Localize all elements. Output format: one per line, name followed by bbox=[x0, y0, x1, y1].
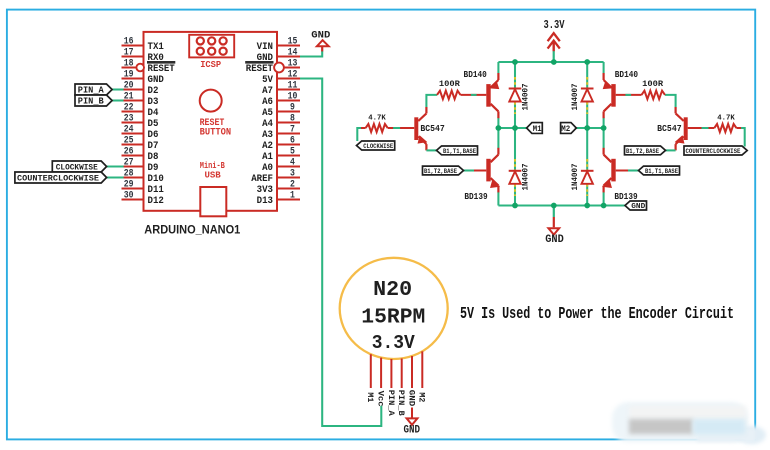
svg-text:11: 11 bbox=[288, 81, 298, 92]
pin 6 A2 (right) bbox=[262, 136, 300, 152]
svg-text:ICSP: ICSP bbox=[200, 59, 221, 70]
svg-text:RESET: RESET bbox=[246, 64, 273, 75]
pin 14 GND (right) bbox=[257, 48, 300, 64]
svg-text:3.3V: 3.3V bbox=[544, 18, 566, 32]
svg-text:20: 20 bbox=[124, 81, 134, 92]
svg-text:D7: D7 bbox=[148, 141, 159, 152]
pin 13 RESET (right) bbox=[245, 59, 300, 75]
wire B1,T1,BASE flag to BD139 base (right) bbox=[616, 169, 639, 171]
pin 8 A4 (right) bbox=[262, 114, 300, 130]
wire B1,T2,BASE flag to BD139 base (left) bbox=[464, 169, 487, 171]
svg-text:12: 12 bbox=[288, 70, 298, 81]
pin 5 A1 (right) bbox=[262, 147, 300, 163]
svg-text:3: 3 bbox=[290, 169, 295, 180]
diode D2 1N4007 (left bottom) bbox=[509, 171, 522, 184]
wire COUNTERCLOCKWISE to pin 28 bbox=[106, 176, 124, 178]
pin 12 5V (right) bbox=[262, 70, 300, 86]
svg-text:BC547: BC547 bbox=[420, 124, 445, 134]
resistor 100R (left) bbox=[437, 80, 461, 99]
wire CLOCKWISE riser (left) bbox=[357, 128, 365, 141]
svg-text:CLOCKWISE: CLOCKWISE bbox=[363, 143, 393, 151]
pin 15 VIN (right) bbox=[257, 37, 300, 53]
net flag CLOCKWISE (bridge) bbox=[357, 141, 395, 151]
svg-text:A2: A2 bbox=[262, 141, 273, 152]
svg-text:USB: USB bbox=[204, 170, 221, 181]
svg-text:B1,T2,BASE: B1,T2,BASE bbox=[626, 148, 659, 156]
svg-text:GND: GND bbox=[631, 203, 646, 211]
net flag B1,T2,BASE (left lower) bbox=[423, 166, 464, 176]
svg-text:27: 27 bbox=[124, 158, 134, 169]
svg-text:1: 1 bbox=[290, 191, 295, 202]
junction (553.8,62.0) bbox=[551, 59, 557, 65]
svg-text:17: 17 bbox=[124, 48, 134, 59]
junction (515.0,62.0) bbox=[512, 59, 518, 65]
transistor Q1 BD140 (left) bbox=[489, 73, 499, 118]
wire 3.3V top rail bbox=[498, 61, 603, 63]
transistor Q5 BC547 (left) bbox=[416, 107, 426, 150]
svg-text:13: 13 bbox=[288, 59, 298, 70]
svg-text:10: 10 bbox=[288, 92, 298, 103]
svg-text:A3: A3 bbox=[262, 130, 273, 141]
wire right transistor column mid-upper bbox=[603, 118, 605, 129]
net flag M2 bbox=[561, 123, 577, 134]
pin 26 D8 (left) bbox=[122, 147, 159, 163]
svg-text:15: 15 bbox=[288, 37, 298, 48]
pin 17 RX0 (left) bbox=[122, 48, 164, 64]
svg-text:3V3: 3V3 bbox=[257, 185, 273, 196]
wire 4.7K to BC547 base (right) bbox=[688, 127, 715, 129]
arduino ARDUINO_NANO1 body bbox=[144, 32, 278, 211]
ground GND (bridge) bbox=[545, 206, 564, 247]
svg-text:26: 26 bbox=[124, 147, 134, 158]
net flag B1,T1,BASE (left) bbox=[437, 146, 478, 156]
wire mid rail M2 bbox=[576, 127, 603, 129]
svg-text:8: 8 bbox=[290, 114, 295, 125]
pin 18 RESET (left) bbox=[122, 59, 176, 75]
svg-text:7: 7 bbox=[290, 125, 295, 136]
svg-text:15RPM: 15RPM bbox=[361, 306, 425, 330]
svg-text:GND: GND bbox=[148, 75, 164, 86]
diode D1 1N4007 (left top) bbox=[509, 89, 522, 102]
junction (587.2,62.0) bbox=[584, 59, 590, 65]
svg-text:9: 9 bbox=[290, 103, 295, 114]
svg-text:24: 24 bbox=[124, 125, 134, 136]
svg-text:COUNTERCLOCKWISE: COUNTERCLOCKWISE bbox=[17, 174, 99, 184]
svg-text:B1,T2,BASE: B1,T2,BASE bbox=[424, 168, 457, 176]
net flag B1,T1,BASE (right lower) bbox=[639, 166, 680, 176]
net flag GND (bridge right) bbox=[625, 201, 647, 211]
svg-text:Vcc: Vcc bbox=[376, 391, 386, 407]
pin 28 D10 (left) bbox=[122, 169, 164, 185]
svg-text:D2: D2 bbox=[148, 86, 159, 97]
svg-text:B1,T1,BASE: B1,T1,BASE bbox=[645, 168, 678, 176]
svg-text:A0: A0 bbox=[262, 163, 273, 174]
pin 19 GND (left) bbox=[122, 70, 164, 86]
svg-text:A5: A5 bbox=[262, 108, 273, 119]
wire BC547 emitter to flag (right) bbox=[666, 149, 676, 151]
junction (603.6,205.5) bbox=[601, 203, 607, 209]
pin 21 D3 (left) bbox=[122, 92, 159, 108]
wire left transistor column mid-upper bbox=[497, 118, 499, 129]
resistor 4.7K (right) bbox=[714, 115, 736, 132]
svg-text:ARDUINO_NANO1: ARDUINO_NANO1 bbox=[144, 223, 240, 237]
wire PIN_A to pin 20 bbox=[112, 88, 124, 90]
net flag PIN_B bbox=[75, 95, 112, 107]
pin 29 D11 (left) bbox=[122, 180, 164, 196]
svg-text:100R: 100R bbox=[439, 80, 460, 89]
svg-text:N20: N20 bbox=[373, 278, 412, 302]
pin 22 D4 (left) bbox=[122, 103, 159, 119]
resistor 100R (right) bbox=[642, 80, 666, 99]
pin 9 A5 (right) bbox=[262, 103, 300, 119]
net flag COUNTERCLOCKWISE (arduino) bbox=[15, 172, 107, 184]
svg-text:GND: GND bbox=[404, 425, 421, 437]
wire right transistor column top bbox=[603, 62, 605, 73]
pin 7 A3 (right) bbox=[262, 125, 300, 141]
ICSP header bbox=[189, 35, 234, 70]
pin 30 D12 (left) bbox=[122, 191, 164, 207]
svg-text:A6: A6 bbox=[262, 97, 273, 108]
transistor Q4 BD139 (right) bbox=[603, 148, 613, 193]
motor pin M1 bbox=[365, 354, 375, 402]
pin 27 D9 (left) bbox=[122, 158, 159, 174]
svg-text:D12: D12 bbox=[148, 196, 164, 207]
wire BC547 emitter to flag (left) bbox=[426, 149, 437, 151]
wire 100R to BD140 base (left) bbox=[461, 94, 487, 96]
pin 1 D13 (right) bbox=[257, 191, 300, 207]
wire 4.7K to BC547 base (left) bbox=[388, 127, 415, 129]
pin 20 D2 (left) bbox=[122, 81, 159, 97]
pin 23 D5 (left) bbox=[122, 114, 159, 130]
net flag B1,T2,BASE (right) bbox=[625, 146, 666, 156]
pin 2 3V3 (right) bbox=[257, 180, 300, 196]
wire left transistor column mid-lower bbox=[497, 128, 499, 149]
net flag PIN_A bbox=[75, 84, 112, 96]
svg-text:BC547: BC547 bbox=[657, 124, 682, 134]
svg-text:M1: M1 bbox=[365, 392, 375, 402]
svg-text:19: 19 bbox=[124, 70, 134, 81]
svg-text:14: 14 bbox=[288, 48, 298, 59]
resistor 4.7K (left) bbox=[366, 115, 388, 132]
junction (498.4,128.0) bbox=[496, 125, 502, 131]
svg-text:1N4007: 1N4007 bbox=[522, 163, 531, 190]
wire pin 12 (5V) to motor Vcc bbox=[300, 79, 381, 427]
wire right transistor column mid-lower bbox=[603, 128, 605, 149]
svg-text:M1: M1 bbox=[533, 125, 542, 134]
wire right transistor column bottom bbox=[603, 192, 605, 206]
net flag CLOCKWISE (arduino) bbox=[52, 161, 106, 173]
svg-text:VIN: VIN bbox=[257, 42, 273, 53]
junction (553.8,205.5) bbox=[551, 203, 557, 209]
svg-text:D6: D6 bbox=[148, 130, 159, 141]
svg-text:CLOCKWISE: CLOCKWISE bbox=[56, 163, 98, 173]
motor pin M2 bbox=[417, 351, 427, 402]
wire 100R to BD140 base (right) bbox=[616, 94, 642, 96]
svg-text:AREF: AREF bbox=[251, 174, 273, 185]
svg-text:D11: D11 bbox=[148, 185, 164, 196]
power 3.3V bbox=[544, 18, 566, 62]
svg-text:D8: D8 bbox=[148, 152, 159, 163]
svg-text:3.3V: 3.3V bbox=[372, 332, 415, 354]
svg-text:TX1: TX1 bbox=[148, 42, 164, 53]
svg-text:18: 18 bbox=[124, 59, 134, 70]
svg-text:BD140: BD140 bbox=[615, 70, 638, 80]
pin 16 TX1 (left) bbox=[122, 37, 164, 53]
diode D3 1N4007 (right top) bbox=[581, 89, 594, 102]
svg-text:1N4007: 1N4007 bbox=[571, 83, 580, 110]
svg-text:BD140: BD140 bbox=[464, 70, 487, 80]
svg-text:PIN_B: PIN_B bbox=[396, 390, 406, 417]
svg-text:25: 25 bbox=[124, 136, 134, 147]
svg-text:5V: 5V bbox=[262, 75, 274, 86]
transistor Q2 BD140 (right) bbox=[603, 73, 613, 118]
svg-text:21: 21 bbox=[124, 92, 134, 103]
junction (587.2,128.0) bbox=[584, 125, 590, 131]
wire left transistor column bottom bbox=[497, 192, 499, 206]
svg-text:GND: GND bbox=[406, 390, 416, 407]
pin 11 A7 (right) bbox=[262, 81, 300, 97]
svg-text:6: 6 bbox=[290, 136, 295, 147]
reset button bbox=[200, 90, 232, 139]
wire CLOCKWISE to pin 27 bbox=[106, 165, 124, 167]
svg-text:1N4007: 1N4007 bbox=[522, 83, 531, 110]
motor pin PIN_A bbox=[386, 359, 396, 417]
svg-text:4.7K: 4.7K bbox=[368, 115, 386, 123]
wire left diode column bbox=[514, 62, 516, 206]
svg-text:22: 22 bbox=[124, 103, 134, 114]
junction (603.6,128.0) bbox=[601, 125, 607, 131]
svg-text:4.7K: 4.7K bbox=[717, 115, 735, 123]
svg-text:29: 29 bbox=[124, 180, 134, 191]
svg-text:B1,T1,BASE: B1,T1,BASE bbox=[443, 148, 476, 156]
motor pin PIN_B bbox=[396, 358, 406, 416]
svg-text:BUTTON: BUTTON bbox=[200, 127, 232, 138]
pin 25 D7 (left) bbox=[122, 136, 159, 152]
wire left transistor column top bbox=[497, 62, 499, 73]
wire BC547-collector to 100R (left) bbox=[426, 95, 437, 107]
motor pin Vcc bbox=[376, 358, 386, 407]
svg-text:5: 5 bbox=[290, 147, 295, 158]
svg-text:PIN_B: PIN_B bbox=[78, 97, 105, 107]
svg-text:D13: D13 bbox=[257, 196, 273, 207]
Mini-B USB connector bbox=[200, 160, 227, 216]
junction (515.0,205.5) bbox=[512, 203, 518, 209]
svg-text:GND: GND bbox=[311, 30, 330, 41]
svg-text:100R: 100R bbox=[642, 80, 663, 89]
svg-text:PIN_A: PIN_A bbox=[386, 390, 396, 417]
transistor Q3 BD139 (left) bbox=[489, 148, 499, 193]
wire pin 14 to GND bbox=[300, 51, 322, 57]
wire BC547-collector to 100R (right) bbox=[665, 95, 676, 107]
svg-text:GND: GND bbox=[545, 234, 564, 246]
svg-text:2: 2 bbox=[290, 180, 295, 191]
svg-text:BD139: BD139 bbox=[464, 192, 487, 202]
svg-text:A1: A1 bbox=[262, 152, 273, 163]
svg-text:23: 23 bbox=[124, 114, 134, 125]
svg-text:COUNTERCLOCKWISE: COUNTERCLOCKWISE bbox=[686, 148, 741, 156]
svg-text:A7: A7 bbox=[262, 86, 273, 97]
wire mid rail M1 bbox=[498, 127, 526, 129]
ground GND (arduino pin 14) bbox=[311, 30, 330, 51]
svg-text:1N4007: 1N4007 bbox=[571, 163, 580, 190]
wire bottom GND rail bbox=[498, 204, 625, 206]
svg-text:A4: A4 bbox=[262, 119, 273, 130]
junction (515.0,128.0) bbox=[512, 125, 518, 131]
net flag M1 bbox=[527, 123, 543, 134]
diode D4 1N4007 (right bottom) bbox=[581, 171, 594, 184]
pin 24 D6 (left) bbox=[122, 125, 159, 141]
svg-text:RESET: RESET bbox=[148, 64, 175, 75]
pin 3 AREF (right) bbox=[251, 169, 300, 185]
svg-text:D10: D10 bbox=[148, 174, 164, 185]
motor pin GND bbox=[406, 356, 416, 406]
pin 10 A6 (right) bbox=[262, 92, 300, 108]
wire right diode column bbox=[586, 62, 588, 206]
wire PIN_B to pin 21 bbox=[112, 99, 124, 101]
ground GND (motor) bbox=[404, 408, 421, 437]
svg-text:28: 28 bbox=[124, 169, 134, 180]
motor N20 circle bbox=[340, 258, 448, 359]
pin 4 A0 (right) bbox=[262, 158, 300, 174]
svg-text:D4: D4 bbox=[148, 108, 159, 119]
svg-text:D3: D3 bbox=[148, 97, 159, 108]
svg-text:D9: D9 bbox=[148, 163, 159, 174]
svg-text:M2: M2 bbox=[561, 125, 570, 134]
svg-text:D5: D5 bbox=[148, 119, 159, 130]
svg-text:5V Is Used to Power the Encode: 5V Is Used to Power the Encoder Circuit bbox=[460, 305, 734, 324]
svg-text:M2: M2 bbox=[417, 392, 427, 402]
svg-text:30: 30 bbox=[124, 191, 134, 202]
wire COUNTERCLOCKWISE riser (right) bbox=[736, 128, 744, 147]
junction (587.2,205.5) bbox=[584, 203, 590, 209]
svg-text:4: 4 bbox=[290, 158, 295, 169]
transistor Q6 BC547 (right) bbox=[676, 107, 686, 150]
svg-text:16: 16 bbox=[124, 37, 134, 48]
net flag COUNTERCLOCKWISE (bridge) bbox=[684, 146, 747, 156]
